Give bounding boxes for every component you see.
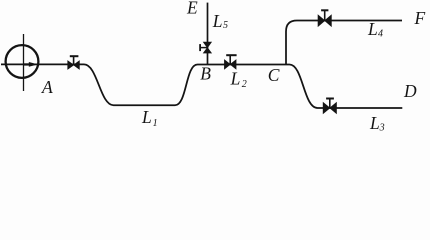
svg-text:C: C bbox=[268, 65, 280, 85]
wire branch C-F riser bbox=[286, 21, 402, 65]
svg-text:L: L bbox=[367, 19, 378, 39]
svg-text:L: L bbox=[212, 11, 223, 31]
valve V5 (vertical, on branch B-E) bbox=[200, 42, 211, 53]
wire branch B-E vertical bbox=[207, 3, 209, 65]
svg-text:D: D bbox=[403, 81, 417, 101]
svg-text:L: L bbox=[369, 113, 380, 133]
svg-text:B: B bbox=[200, 64, 211, 84]
svg-text:L: L bbox=[141, 107, 152, 127]
svg-text:1: 1 bbox=[153, 118, 158, 129]
svg-text:A: A bbox=[41, 77, 53, 97]
wire main pipeline A-B-C-D bbox=[1, 64, 402, 108]
svg-text:2: 2 bbox=[242, 79, 247, 90]
svg-text:F: F bbox=[414, 8, 426, 28]
pump U1 circle bbox=[6, 45, 39, 78]
svg-text:E: E bbox=[186, 0, 198, 18]
svg-text:5: 5 bbox=[223, 20, 228, 31]
svg-text:4: 4 bbox=[378, 29, 383, 40]
valve V2 bbox=[225, 55, 237, 69]
svg-text:3: 3 bbox=[379, 122, 385, 133]
valve V1 bbox=[68, 56, 80, 69]
valve V4 (on branch C-F) bbox=[318, 10, 331, 26]
valve V3 (on branch C-D) bbox=[323, 99, 336, 114]
svg-text:L: L bbox=[230, 69, 241, 89]
pump U1 cross vertical bbox=[23, 34, 25, 91]
pump U1 flow arrow bbox=[24, 62, 39, 67]
